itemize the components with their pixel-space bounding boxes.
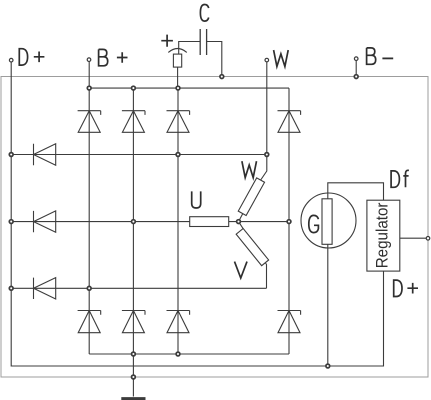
wire B- drop xyxy=(355,61,357,77)
label W winding xyxy=(242,161,257,177)
label C xyxy=(200,5,208,22)
diode trio row 1 xyxy=(34,144,56,165)
wire phase 2 / neutral line xyxy=(11,221,289,223)
label G rotor xyxy=(309,215,319,232)
node D+ bus phase3 xyxy=(9,286,13,290)
wire W terminal drop xyxy=(266,62,268,154)
terminal regulator right xyxy=(426,237,430,241)
terminal D+ xyxy=(9,58,13,62)
diode D4 top col4 xyxy=(278,111,301,133)
diode D1 top col1 xyxy=(78,111,101,133)
node phase2 col2 xyxy=(132,220,136,224)
rotor G wires xyxy=(328,183,384,366)
capacitor C wire to left plate xyxy=(179,42,201,55)
node neutral col4 xyxy=(287,220,291,224)
wire B+ top rail xyxy=(89,87,289,89)
node phase1 W xyxy=(265,153,269,157)
label Df xyxy=(391,170,409,187)
label B+ xyxy=(99,49,128,65)
node frame top B- xyxy=(354,75,358,79)
label D+ regulator xyxy=(394,280,418,296)
wire winding W connector xyxy=(239,155,267,222)
diode D8 bottom col4 xyxy=(278,311,301,333)
ground bar xyxy=(121,397,145,400)
winding V (stator) xyxy=(236,229,268,266)
node frame bottom ground xyxy=(132,375,136,379)
node phase3 col1 xyxy=(87,286,91,290)
wire phase 3 xyxy=(11,287,266,289)
frame (alternator case) xyxy=(1,77,428,378)
wire ground drop xyxy=(132,354,134,397)
rotor G circle xyxy=(301,193,356,248)
regulator box xyxy=(367,200,400,271)
rotor G slip-ring rect xyxy=(322,199,332,245)
capacitor C wire right plate to frame xyxy=(207,42,222,77)
winding W (stator) xyxy=(238,178,264,216)
wire phase 1 xyxy=(11,154,267,156)
node phase1 col3 xyxy=(176,153,180,157)
diode D2 top col2 xyxy=(122,111,145,133)
wire winding V connector xyxy=(239,222,267,289)
diode D3 top col3 xyxy=(167,111,190,133)
wire diode column 2 xyxy=(132,88,134,354)
node D+ bus G xyxy=(326,364,330,368)
node D+ bus phase2 xyxy=(9,220,13,224)
node ground rail col3 xyxy=(176,352,180,356)
diode D7 bottom col3 xyxy=(167,311,190,333)
label B- xyxy=(367,48,394,64)
wire diode column 4 xyxy=(288,88,290,354)
wire diode column 3 xyxy=(177,88,179,354)
label U winding xyxy=(192,191,201,208)
capacitor C plates xyxy=(200,29,206,55)
node B+ rail col2 xyxy=(132,86,136,90)
wire regulator right to frame terminal xyxy=(400,237,427,239)
node D+ bus phase1 xyxy=(9,153,13,157)
diode trio row 3 xyxy=(34,278,56,299)
label V winding xyxy=(235,262,248,278)
terminal B+ xyxy=(87,58,91,62)
node frame top cap xyxy=(220,75,224,79)
wire diode column 1 xyxy=(88,88,90,354)
diode D6 bottom col2 xyxy=(122,311,145,333)
svg-text:Regulator: Regulator xyxy=(374,202,392,268)
node ground rail col2 xyxy=(132,352,136,356)
label W terminal xyxy=(274,50,289,66)
diode trio row 2 xyxy=(34,211,56,232)
winding U (stator) xyxy=(190,217,229,227)
node star point xyxy=(237,220,241,224)
capacitor C assembly: plus sign xyxy=(161,35,173,47)
capacitor C body rect xyxy=(173,54,181,67)
terminal W xyxy=(265,58,269,62)
node B+ rail col3 cap xyxy=(176,86,180,90)
node B+ rail col1 xyxy=(87,86,91,90)
terminal B- xyxy=(354,57,358,61)
capacitor C wire rect to rail xyxy=(177,67,179,88)
diode D5 bottom col1 xyxy=(78,311,101,333)
wire D+ line: terminal drop, left bus, bottom D+ bus, up to regulator bottom xyxy=(11,62,383,366)
wire ground rail xyxy=(89,353,289,355)
label D+ top left xyxy=(19,49,44,65)
capacitor C arc xyxy=(168,49,187,53)
wire B+ drop xyxy=(88,62,90,88)
